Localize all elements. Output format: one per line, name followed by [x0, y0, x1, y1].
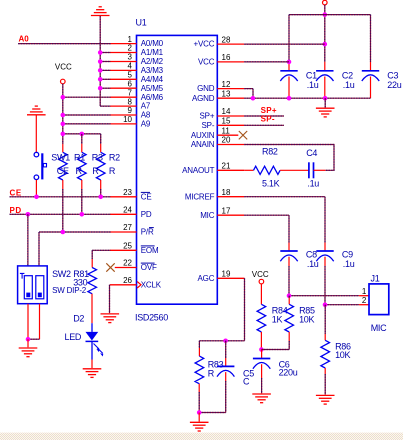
wire C3 top red lead	[370, 62, 372, 71]
svg-text:SW2: SW2	[52, 269, 71, 279]
wire pin27 row	[39, 231, 111, 233]
svg-text:26: 26	[123, 276, 132, 285]
wire bus branch	[100, 87, 110, 89]
svg-text:PD: PD	[10, 206, 22, 215]
pin 1 A0/M0 stub	[110, 43, 137, 45]
pin 5 A4/M4 stub	[110, 78, 137, 80]
svg-text:A3/M3: A3/M3	[141, 66, 164, 75]
svg-text:SP+: SP+	[200, 112, 215, 121]
wire A0 to pin 1	[18, 43, 110, 45]
wire C4 right lead	[314, 169, 326, 171]
wire VCC to pin 10	[63, 123, 111, 125]
wire bus branch	[100, 52, 110, 54]
ground G3 below SW2	[19, 348, 38, 357]
wire C5 bottom lead	[225, 372, 227, 381]
svg-text:AGND: AGND	[192, 94, 215, 103]
resistor R2	[96, 152, 105, 180]
wire SW1 bottom to CE row	[35, 180, 37, 197]
svg-text:R2: R2	[109, 152, 120, 162]
wire to ground G3	[27, 339, 29, 347]
junction dot C8-R85-J1	[287, 293, 292, 298]
svg-text:14: 14	[222, 107, 231, 116]
svg-text:MICREF: MICREF	[185, 192, 215, 201]
svg-text:8: 8	[128, 97, 133, 106]
wire R86 bottom lead	[324, 368, 326, 374]
svg-text:R82: R82	[262, 146, 278, 156]
svg-text:1: 1	[362, 287, 367, 296]
wire R86 top lead	[324, 305, 326, 334]
junction dot on bus	[98, 59, 103, 64]
wire C1 branch vertical	[288, 15, 290, 62]
svg-text:OVF: OVF	[141, 263, 157, 272]
junction dot C1-rail	[287, 96, 292, 101]
wire SW2 right vertical	[38, 232, 40, 266]
junction dot VCC-rail	[323, 12, 328, 17]
svg-text:A5/M5: A5/M5	[141, 84, 164, 93]
svg-text:A7: A7	[141, 102, 151, 111]
pin 4 A3/M3 stub	[110, 69, 137, 71]
op-amp U1 ISD2560 chip body	[137, 35, 218, 304]
junction dot on VCC rail	[61, 95, 66, 100]
svg-text:.1u: .1u	[343, 80, 355, 90]
junction dot pin12-rail	[251, 96, 256, 101]
svg-text:12: 12	[222, 80, 231, 89]
ground G9 below R86	[316, 395, 335, 404]
junction dot on bus	[98, 50, 103, 55]
svg-text:A9: A9	[141, 120, 151, 129]
wire pin 21 red lead to R82	[244, 169, 253, 171]
wire R81 bottom to LED	[91, 294, 93, 323]
junction dot C5-AGC	[223, 339, 228, 344]
svg-text:19: 19	[222, 270, 231, 279]
pin 8 A7 stub	[110, 105, 137, 107]
pin 9 A8 stub	[110, 114, 137, 116]
switch SW1 push button	[34, 152, 46, 179]
ground G1 top (above address bus)	[91, 7, 110, 16]
junction dot SW2 ground	[26, 337, 31, 342]
pin 16 VCC stub	[217, 61, 244, 63]
svg-text:9: 9	[128, 106, 133, 115]
svg-text:EOM: EOM	[141, 246, 159, 255]
selection hatch strip at bottom	[0, 433, 403, 440]
switch SW2 DIP-2 body	[18, 266, 48, 304]
svg-text:C: C	[243, 376, 250, 386]
pin 6 A5/M5 stub	[110, 87, 137, 89]
svg-text:220u: 220u	[279, 367, 298, 377]
wire C1 top red lead	[288, 62, 290, 71]
power VCC circle (top)	[323, 0, 328, 5]
wire mic bias row to J1 pin 1	[289, 295, 359, 297]
svg-text:U1: U1	[136, 18, 147, 28]
wire R83 top lead	[198, 341, 200, 348]
svg-text:2: 2	[362, 296, 367, 305]
wire SW2 left vertical	[27, 214, 29, 266]
wire C6 bottom lead	[261, 364, 263, 378]
junction dot on VCC rail	[61, 122, 66, 127]
wire R85 bottom lead	[288, 332, 290, 341]
svg-text:20: 20	[222, 136, 231, 145]
wire C8 bottom lead	[288, 257, 290, 266]
wire R82 to C4	[280, 169, 309, 171]
wire VCC vertical to R1	[62, 84, 64, 144]
wire VCC to pin 7	[63, 96, 111, 98]
wire top rail	[289, 14, 371, 16]
wire C6 top lead	[261, 350, 263, 359]
svg-text:AGC: AGC	[198, 274, 215, 283]
wire R81 top lead	[91, 250, 93, 259]
svg-text:VCC: VCC	[55, 62, 72, 71]
junction dot on bus	[98, 77, 103, 82]
resistor R85	[285, 304, 294, 332]
svg-text:LED: LED	[65, 332, 82, 342]
svg-text:R3: R3	[92, 152, 103, 162]
pin 23 CE stub	[110, 196, 137, 198]
svg-text:.1u: .1u	[307, 259, 319, 269]
svg-text:XCLK: XCLK	[141, 280, 162, 289]
wire bottom join R83-C5	[199, 412, 226, 414]
svg-text:A2/M2: A2/M2	[141, 57, 164, 66]
svg-text:17: 17	[222, 206, 231, 215]
wire pin12 jog	[244, 88, 253, 90]
pin 22 OVF stub	[115, 267, 137, 269]
svg-text:10K: 10K	[299, 315, 314, 325]
junction dot SW1-CE	[34, 195, 39, 200]
svg-text:C4: C4	[306, 148, 317, 158]
wire pin 16 to C1	[244, 61, 289, 63]
diode D2 LED	[86, 323, 104, 359]
svg-text:R: R	[92, 166, 99, 176]
clock marker at XCLK pin	[137, 282, 141, 288]
wire ground rail (pin13 / caps bottom)	[244, 97, 370, 99]
svg-text:VCC: VCC	[198, 58, 215, 67]
wire C3 branch vertical	[370, 15, 372, 62]
junction dot R2-CE	[98, 195, 103, 200]
wire VCC vertical to C2	[324, 5, 326, 62]
wire R83 bottom lead	[198, 384, 200, 392]
capacitor C1	[280, 71, 297, 81]
wire SW2 bottom left lead	[27, 304, 29, 340]
wire pin 20 loop	[244, 145, 334, 171]
pin 13 AGND stub	[217, 97, 244, 99]
svg-text:7: 7	[128, 88, 133, 97]
resistor R82	[254, 166, 281, 174]
junction dot pin16-C1	[287, 60, 292, 65]
pin 27 P/R stub	[110, 231, 137, 233]
junction dot R1-P/R	[61, 230, 66, 235]
no-connect X at pin 22	[106, 263, 114, 271]
pin 24 PD stub	[110, 213, 137, 215]
svg-text:.1u: .1u	[307, 80, 319, 90]
svg-text:MIC: MIC	[371, 323, 387, 333]
svg-text:GND: GND	[197, 84, 215, 93]
wire LED cathode to ground	[91, 360, 93, 369]
wire pin 18 to C9	[244, 196, 325, 198]
junction dot C9-R86-J1	[323, 302, 328, 307]
resistor R3	[78, 152, 87, 180]
wire bus branch	[100, 78, 110, 80]
svg-text:R: R	[109, 166, 116, 176]
pin 20 ANAIN stub	[217, 144, 244, 146]
svg-text:VCC: VCC	[252, 270, 269, 279]
wire bus branch	[100, 69, 110, 71]
capacitor C8	[280, 251, 297, 261]
svg-text:5.1K: 5.1K	[262, 178, 280, 188]
wire pin 28 to VCC	[244, 43, 324, 45]
wire R84 bottom lead	[260, 332, 262, 350]
wire R85 top lead	[288, 296, 290, 298]
pin 28 +VCC stub	[217, 43, 244, 45]
svg-text:1K: 1K	[272, 315, 283, 325]
svg-text:R: R	[208, 368, 215, 378]
wire bus branch	[100, 61, 110, 63]
svg-text:R: R	[76, 166, 83, 176]
junction dot on VCC rail	[80, 132, 85, 137]
svg-text:27: 27	[123, 223, 132, 232]
junction dot on VCC rail	[61, 113, 66, 118]
wire SW2 bottom join	[28, 338, 40, 340]
wire R1 bottom to pin27 row	[62, 180, 64, 189]
pin 26 XCLK stub	[110, 284, 137, 286]
junction dot C2-rail	[323, 96, 328, 101]
svg-text:A8: A8	[141, 111, 151, 120]
resistor R81	[88, 268, 97, 294]
svg-text:21: 21	[222, 162, 231, 171]
ground G5 below pin 26	[101, 314, 120, 323]
svg-text:A4/M4: A4/M4	[141, 75, 164, 84]
junction dot PD-SW2	[26, 212, 31, 217]
wire VCC to R84	[260, 284, 262, 304]
svg-text:D2: D2	[73, 313, 84, 323]
svg-text:13: 13	[222, 89, 231, 98]
svg-text:25: 25	[123, 242, 132, 251]
capacitor C6	[253, 359, 270, 369]
svg-text:2: 2	[128, 44, 133, 53]
wire C9 bottom lead	[324, 257, 326, 266]
junction dot on bus	[98, 86, 103, 91]
svg-text:ISD2560: ISD2560	[135, 313, 168, 323]
pin 7 A6/M6 stub	[110, 96, 137, 98]
junction dot on VCC rail	[61, 132, 66, 137]
wire C9 top red lead	[324, 243, 326, 252]
svg-text:J1: J1	[371, 274, 380, 284]
svg-text:R1: R1	[74, 152, 85, 162]
wire SW2 bottom right lead	[39, 304, 41, 340]
svg-text:3: 3	[128, 53, 133, 62]
pin 14 SP+ stub	[217, 115, 244, 117]
svg-text:10K: 10K	[335, 350, 350, 360]
wire R1 top red lead	[62, 144, 64, 152]
junction dot R3-PD	[80, 212, 85, 217]
svg-text:ANAOUT: ANAOUT	[182, 166, 214, 175]
svg-text:P/R: P/R	[141, 228, 154, 237]
svg-text:SP+: SP+	[261, 106, 277, 115]
capacitor C2	[316, 71, 333, 81]
svg-text:10: 10	[123, 115, 132, 124]
wire AGC row	[199, 340, 244, 342]
svg-text:SP-: SP-	[202, 121, 215, 130]
wire C2 bottom lead	[324, 77, 326, 99]
svg-text:6: 6	[128, 79, 133, 88]
svg-text:CE: CE	[57, 166, 69, 176]
wire SP- from pin 15	[244, 124, 284, 126]
svg-text:1: 1	[128, 35, 133, 44]
pin 2 A1/M1 stub	[110, 52, 137, 54]
ground G4 below LED	[83, 369, 102, 378]
wire R2 top lead	[100, 134, 102, 144]
pin 25 EOM stub	[110, 249, 137, 251]
pin 11 AUXIN stub	[217, 134, 238, 136]
wire C5 top lead	[225, 341, 227, 358]
pin 19 AGC stub	[217, 277, 244, 279]
pin 18 MICREF stub	[217, 196, 244, 198]
wire ground to SW1	[35, 116, 37, 153]
ground G8 below C6	[252, 394, 271, 403]
wire to ground G7	[198, 413, 200, 422]
svg-text:SW1: SW1	[51, 152, 70, 162]
capacitor C4	[309, 162, 314, 178]
svg-text:CE: CE	[10, 188, 22, 197]
ground G7 below R83	[190, 422, 209, 431]
pin 17 MIC stub	[217, 214, 244, 216]
capacitor C3	[362, 71, 379, 81]
wire R2 bottom to CE row	[100, 180, 102, 189]
wire pin 19 AGC down	[244, 278, 246, 341]
svg-text:CE: CE	[141, 192, 152, 201]
svg-text:24: 24	[123, 206, 132, 215]
ground G6 below cap rail	[316, 108, 335, 117]
no-connect X at pin 11	[239, 131, 247, 139]
svg-text:A1/M1: A1/M1	[141, 48, 164, 57]
pin 3 A2/M2 stub	[110, 61, 137, 63]
wire C8 top red lead	[288, 243, 290, 252]
svg-text:23: 23	[123, 188, 132, 197]
svg-text:4: 4	[128, 62, 133, 71]
svg-text:SW DIP-2: SW DIP-2	[52, 286, 87, 295]
power VCC circle (top-left)	[61, 79, 66, 84]
junction dot R84-C6	[259, 347, 264, 352]
wire CE net to pin 23	[10, 196, 111, 198]
wire rail to ground G6	[324, 98, 326, 107]
wire R85 to R84 join	[261, 349, 289, 351]
svg-text:A0: A0	[19, 35, 30, 44]
wire pin 17 to C8	[244, 214, 289, 216]
wire bus vertical from ground to pin8	[99, 16, 101, 106]
connector J1 body	[369, 284, 389, 315]
wire pin25 row to R81	[92, 249, 110, 251]
power VCC circle (R84)	[259, 279, 264, 284]
pin 15 SP- stub	[217, 124, 244, 126]
wire C2 top red lead	[324, 62, 326, 71]
svg-text:ANAIN: ANAIN	[191, 140, 215, 149]
pin 12 GND stub	[217, 88, 244, 90]
svg-text:MIC: MIC	[200, 211, 214, 220]
pin 10 A9 stub	[110, 123, 137, 125]
svg-text:PD: PD	[141, 210, 152, 219]
svg-text:AUXIN: AUXIN	[191, 131, 215, 140]
svg-text:15: 15	[222, 117, 231, 126]
junction dot pin28-VCC	[323, 42, 328, 47]
svg-text:.1u: .1u	[343, 259, 355, 269]
junction dot on bus	[98, 68, 103, 73]
wire bus corner into pin 8	[100, 105, 110, 107]
svg-text:16: 16	[222, 53, 231, 62]
ground G2 above SW1	[27, 106, 46, 115]
svg-text:22u: 22u	[387, 80, 401, 90]
wire PD net to pin 24	[10, 213, 111, 215]
resistor R84	[257, 304, 266, 332]
wire row to J1 pin 2	[325, 304, 359, 306]
svg-text:28: 28	[222, 35, 231, 44]
svg-text:.1u: .1u	[307, 178, 319, 188]
wire VCC to pin 9	[63, 114, 111, 116]
wire pin26 to ground	[109, 285, 111, 313]
resistor R83	[195, 356, 204, 384]
svg-text:A6/M6: A6/M6	[141, 93, 164, 102]
wire C3 bottom lead	[370, 77, 372, 99]
wire R3 bottom to PD row	[81, 180, 83, 189]
svg-text:SP-: SP-	[261, 115, 275, 124]
resistor R1	[59, 152, 68, 180]
wire R3 top lead	[81, 134, 83, 144]
svg-text:A0/M0: A0/M0	[141, 39, 164, 48]
junction dot R83 ground	[197, 410, 202, 415]
wire C1 bottom lead	[288, 77, 290, 99]
svg-text:18: 18	[222, 188, 231, 197]
svg-text:22: 22	[123, 259, 132, 268]
svg-text:11: 11	[222, 126, 231, 135]
capacitor C9	[316, 251, 333, 261]
capacitor C5	[217, 366, 234, 376]
wire VCC rail to R3 R2 tops	[63, 133, 101, 135]
resistor R86	[321, 340, 330, 368]
svg-text:+VCC: +VCC	[194, 40, 215, 49]
svg-text:5: 5	[128, 71, 133, 80]
wire SP+ from pin 14	[244, 115, 284, 117]
pin 21 ANAOUT stub	[217, 169, 244, 171]
